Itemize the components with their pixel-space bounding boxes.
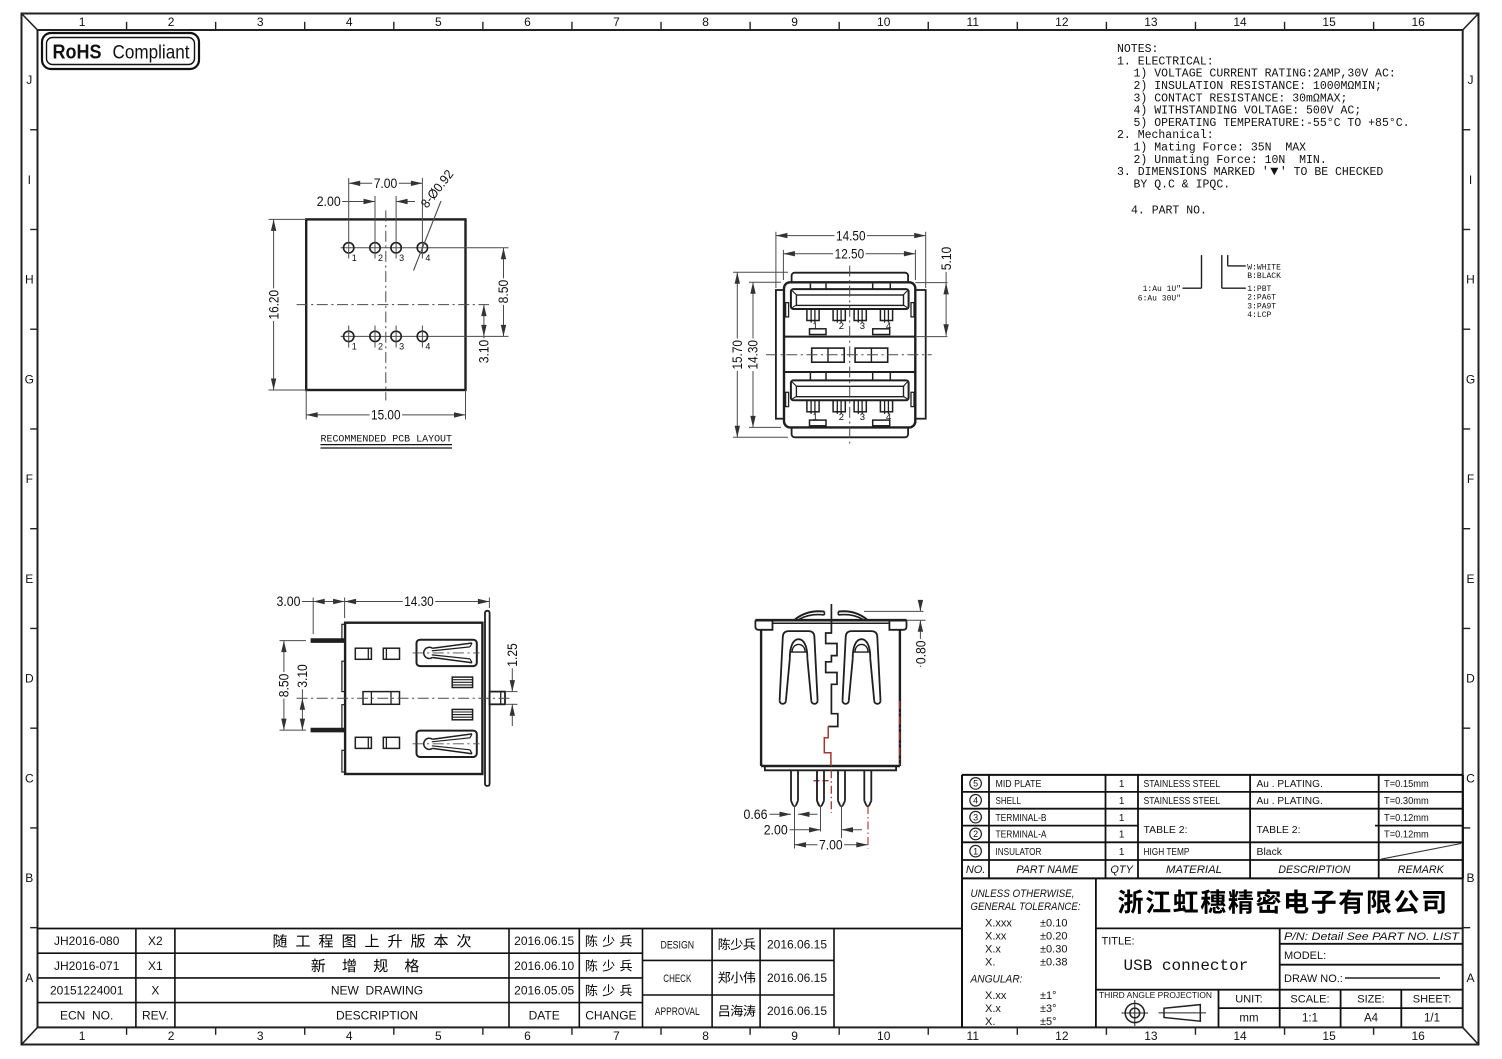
svg-text:1: 1 xyxy=(813,321,818,332)
svg-text:Au . PLATING.: Au . PLATING. xyxy=(1257,779,1323,790)
svg-text:C: C xyxy=(25,771,34,785)
svg-text:12.50: 12.50 xyxy=(835,246,865,261)
svg-text:X.x: X.x xyxy=(985,1003,1001,1015)
svg-text:20151224001: 20151224001 xyxy=(50,984,124,998)
svg-text:3: 3 xyxy=(399,341,404,351)
svg-text:15.00: 15.00 xyxy=(371,408,401,423)
svg-text:14.30: 14.30 xyxy=(746,340,761,370)
svg-text:12: 12 xyxy=(1055,1029,1069,1043)
svg-text:SHEET:: SHEET: xyxy=(1413,994,1452,1006)
svg-text:Black: Black xyxy=(1257,847,1284,858)
svg-text:3: 3 xyxy=(399,253,404,263)
svg-text:P/N: Detail See PART NO. LIST: P/N: Detail See PART NO. LIST xyxy=(1284,931,1460,943)
svg-text:14.50: 14.50 xyxy=(836,228,866,243)
svg-text:11: 11 xyxy=(967,15,980,29)
svg-text:11: 11 xyxy=(967,1029,980,1043)
svg-text:1:PBT: 1:PBT xyxy=(1247,285,1271,294)
svg-text:5: 5 xyxy=(973,779,978,789)
svg-text:APPROVAL: APPROVAL xyxy=(655,1006,700,1018)
svg-text:T=0.30mm: T=0.30mm xyxy=(1384,795,1429,807)
svg-text:4: 4 xyxy=(346,15,353,29)
svg-text:5.10: 5.10 xyxy=(939,247,954,271)
svg-text:2. Mechanical:: 2. Mechanical: xyxy=(1117,129,1214,142)
svg-text:THIRD ANGLE PROJECTION: THIRD ANGLE PROJECTION xyxy=(1099,990,1212,1000)
svg-text:C: C xyxy=(1466,771,1475,785)
svg-text:2016.06.15: 2016.06.15 xyxy=(514,934,574,948)
svg-text:3. DIMENSIONS MARKED ': 3. DIMENSIONS MARKED ' xyxy=(1117,166,1269,179)
svg-text:REMARK: REMARK xyxy=(1398,864,1445,876)
svg-text:G: G xyxy=(1466,372,1475,386)
svg-text:SCALE:: SCALE: xyxy=(1290,994,1329,1006)
svg-text:2016.06.15: 2016.06.15 xyxy=(767,971,827,985)
svg-text:16.20: 16.20 xyxy=(266,290,281,320)
svg-text:2.00: 2.00 xyxy=(317,194,341,209)
svg-text:7.00: 7.00 xyxy=(819,838,843,853)
svg-text:2: 2 xyxy=(168,1029,175,1043)
svg-text:X2: X2 xyxy=(148,934,163,948)
svg-text:PART NAME: PART NAME xyxy=(1016,864,1079,876)
svg-text:2: 2 xyxy=(839,321,844,332)
svg-text:6: 6 xyxy=(524,15,531,29)
svg-text:7.00: 7.00 xyxy=(374,176,398,191)
svg-text:10: 10 xyxy=(877,15,891,29)
svg-text:1: 1 xyxy=(973,846,978,856)
svg-text:3.00: 3.00 xyxy=(277,594,301,609)
svg-text:1: 1 xyxy=(352,341,357,351)
svg-text:X.xx: X.xx xyxy=(985,931,1007,943)
svg-text:MATERIAL: MATERIAL xyxy=(1166,864,1222,876)
svg-text:X.x: X.x xyxy=(985,944,1001,956)
svg-text:QTY: QTY xyxy=(1110,864,1133,876)
svg-text:INSULATOR: INSULATOR xyxy=(996,847,1042,858)
svg-text:±0.20: ±0.20 xyxy=(1040,931,1067,943)
svg-text:1: 1 xyxy=(813,412,818,423)
svg-text:E: E xyxy=(25,572,33,586)
svg-text:BY Q.C & IPQC.: BY Q.C & IPQC. xyxy=(1134,179,1231,192)
svg-text:RoHS: RoHS xyxy=(53,42,102,64)
svg-text:TABLE 2:: TABLE 2: xyxy=(1257,825,1301,836)
svg-text:8.50: 8.50 xyxy=(496,280,511,304)
svg-text:H: H xyxy=(1466,273,1475,287)
svg-text:4: 4 xyxy=(346,1029,353,1043)
svg-text:UNIT:: UNIT: xyxy=(1235,994,1263,1006)
svg-text:X.: X. xyxy=(985,957,995,969)
svg-text:DESIGN: DESIGN xyxy=(661,940,695,952)
svg-text:X: X xyxy=(151,984,159,998)
svg-text:3:PA9T: 3:PA9T xyxy=(1247,302,1276,311)
svg-text:15: 15 xyxy=(1322,15,1336,29)
svg-text:1: 1 xyxy=(1119,779,1125,790)
svg-text:NEW DRAWING: NEW DRAWING xyxy=(331,984,423,998)
svg-text:16: 16 xyxy=(1411,15,1425,29)
svg-text:13: 13 xyxy=(1144,15,1158,29)
svg-text:DATE: DATE xyxy=(529,1008,560,1022)
svg-text:8.50: 8.50 xyxy=(277,674,292,698)
svg-text:±0.10: ±0.10 xyxy=(1040,918,1067,930)
svg-text:2016.06.15: 2016.06.15 xyxy=(767,1004,827,1018)
svg-text:ANGULAR:: ANGULAR: xyxy=(970,974,1023,986)
svg-text:7: 7 xyxy=(613,15,620,29)
svg-text:14: 14 xyxy=(1233,1029,1247,1043)
svg-text:1: 1 xyxy=(79,1029,86,1043)
svg-text:2016.06.10: 2016.06.10 xyxy=(514,959,574,973)
svg-text:15: 15 xyxy=(1322,1029,1336,1043)
svg-text:B: B xyxy=(25,871,33,885)
svg-text:±5°: ±5° xyxy=(1040,1016,1057,1028)
svg-text:1. ELECTRICAL:: 1. ELECTRICAL: xyxy=(1117,55,1214,68)
svg-text:1:Au 1U": 1:Au 1U" xyxy=(1143,285,1181,294)
svg-text:±0.38: ±0.38 xyxy=(1040,957,1067,969)
svg-text:6: 6 xyxy=(524,1029,531,1043)
svg-text:3: 3 xyxy=(257,15,264,29)
svg-text:3: 3 xyxy=(973,812,978,822)
svg-text:1: 1 xyxy=(352,253,357,263)
svg-text:3.10: 3.10 xyxy=(295,664,310,688)
svg-text:2016.05.05: 2016.05.05 xyxy=(514,984,574,998)
svg-text:X1: X1 xyxy=(148,959,163,973)
svg-text:±0.30: ±0.30 xyxy=(1040,944,1067,956)
svg-text:9: 9 xyxy=(791,15,798,29)
svg-text:REV.: REV. xyxy=(142,1008,169,1022)
svg-text:TITLE:: TITLE: xyxy=(1102,936,1135,948)
svg-text:3: 3 xyxy=(860,321,865,332)
svg-text:3.10: 3.10 xyxy=(477,340,492,364)
svg-text:UNLESS OTHERWISE,: UNLESS OTHERWISE, xyxy=(971,888,1075,900)
svg-text:10: 10 xyxy=(877,1029,891,1043)
svg-text:8: 8 xyxy=(702,15,709,29)
svg-text:A: A xyxy=(1466,971,1474,985)
svg-text:8: 8 xyxy=(702,1029,709,1043)
svg-text:1: 1 xyxy=(1119,847,1125,858)
svg-text:1/1: 1/1 xyxy=(1424,1013,1440,1025)
svg-text:12: 12 xyxy=(1055,15,1069,29)
svg-text:2:PA6T: 2:PA6T xyxy=(1247,294,1276,303)
svg-text:X.: X. xyxy=(985,1016,995,1028)
svg-text:4: 4 xyxy=(973,796,978,806)
svg-text:3) CONTACT RESISTANCE: 30mΩMAX: 3) CONTACT RESISTANCE: 30mΩMAX; xyxy=(1134,92,1348,105)
svg-text:±3°: ±3° xyxy=(1040,1003,1057,1015)
svg-text:H: H xyxy=(25,273,34,287)
svg-text:5: 5 xyxy=(435,15,442,29)
svg-text:I: I xyxy=(28,173,31,187)
svg-text:2: 2 xyxy=(378,341,383,351)
svg-text:5) OPERATING TEMPERATURE:-55°C: 5) OPERATING TEMPERATURE:-55°C TO +85°C. xyxy=(1134,117,1410,130)
svg-text:I: I xyxy=(1469,173,1472,187)
svg-text:NO.: NO. xyxy=(966,864,986,876)
svg-text:SHELL: SHELL xyxy=(996,796,1022,807)
svg-text:MODEL:: MODEL: xyxy=(1284,950,1326,962)
svg-text:2: 2 xyxy=(168,15,175,29)
svg-text:±1°: ±1° xyxy=(1040,990,1057,1002)
svg-text:TERMINAL-A: TERMINAL-A xyxy=(996,830,1047,841)
svg-text:1: 1 xyxy=(1119,796,1125,807)
svg-text:4. PART NO.: 4. PART NO. xyxy=(1131,205,1207,218)
svg-text:3: 3 xyxy=(257,1029,264,1043)
svg-text:JH2016-071: JH2016-071 xyxy=(54,959,120,973)
svg-text:F: F xyxy=(1467,472,1474,486)
svg-text:DRAW NO.:: DRAW NO.: xyxy=(1284,973,1343,985)
svg-text:9: 9 xyxy=(791,1029,798,1043)
svg-text:D: D xyxy=(25,672,34,686)
svg-text:T=0.15mm: T=0.15mm xyxy=(1384,778,1429,790)
svg-text:A4: A4 xyxy=(1364,1013,1379,1025)
svg-text:mm: mm xyxy=(1239,1013,1258,1025)
svg-text:Au . PLATING.: Au . PLATING. xyxy=(1257,796,1323,807)
svg-text:G: G xyxy=(25,372,34,386)
svg-text:0.66: 0.66 xyxy=(744,807,768,822)
svg-text:JH2016-080: JH2016-080 xyxy=(54,934,120,948)
svg-text:2016.06.15: 2016.06.15 xyxy=(767,938,827,952)
svg-text:HIGH TEMP: HIGH TEMP xyxy=(1144,847,1190,858)
svg-text:1: 1 xyxy=(79,15,86,29)
svg-text:4: 4 xyxy=(886,412,891,423)
svg-text:' TO BE CHECKED: ' TO BE CHECKED xyxy=(1280,166,1384,179)
svg-text:3: 3 xyxy=(860,412,865,423)
svg-text:1.25: 1.25 xyxy=(505,643,520,667)
svg-text:14: 14 xyxy=(1233,15,1247,29)
svg-text:2: 2 xyxy=(378,253,383,263)
svg-text:RECOMMENDED PCB LAYOUT: RECOMMENDED PCB LAYOUT xyxy=(321,434,453,446)
svg-text:MID PLATE: MID PLATE xyxy=(996,779,1042,790)
svg-text:1: 1 xyxy=(1119,813,1125,824)
svg-text:1) VOLTAGE CURRENT RATING:2AMP: 1) VOLTAGE CURRENT RATING:2AMP,30V AC: xyxy=(1134,68,1396,81)
svg-text:2) INSULATION RESISTANCE: 1000: 2) INSULATION RESISTANCE: 1000MΩMIN; xyxy=(1134,80,1382,93)
svg-text:D: D xyxy=(1466,672,1475,686)
svg-text:J: J xyxy=(26,73,32,87)
svg-text:NOTES:: NOTES: xyxy=(1117,43,1158,56)
svg-text:16: 16 xyxy=(1411,1029,1425,1043)
svg-text:0.80: 0.80 xyxy=(914,641,929,665)
svg-text:2.00: 2.00 xyxy=(764,823,788,838)
svg-text:6:Au 30U": 6:Au 30U" xyxy=(1138,295,1181,304)
svg-text:TERMINAL-B: TERMINAL-B xyxy=(996,813,1047,824)
svg-text:4: 4 xyxy=(425,341,430,351)
svg-text:STAINLESS STEEL: STAINLESS STEEL xyxy=(1144,796,1221,807)
svg-text:13: 13 xyxy=(1144,1029,1158,1043)
svg-text:X.xx: X.xx xyxy=(985,990,1007,1002)
svg-text:1) Mating Force: 35N MAX: 1) Mating Force: 35N MAX xyxy=(1134,142,1307,155)
svg-text:GENERAL TOLERANCE:: GENERAL TOLERANCE: xyxy=(971,901,1081,913)
svg-text:USB connector: USB connector xyxy=(1124,957,1249,975)
svg-text:CHECK: CHECK xyxy=(663,973,691,985)
svg-text:4) WITHSTANDING VOLTAGE: 500V: 4) WITHSTANDING VOLTAGE: 500V AC; xyxy=(1134,105,1362,118)
svg-text:STAINLESS STEEL: STAINLESS STEEL xyxy=(1144,779,1221,790)
svg-text:5: 5 xyxy=(435,1029,442,1043)
svg-text:DESCRIPTION: DESCRIPTION xyxy=(336,1008,418,1022)
svg-text:DESCRIPTION: DESCRIPTION xyxy=(1278,864,1350,876)
svg-text:Compliant: Compliant xyxy=(113,43,191,64)
svg-text:4: 4 xyxy=(886,321,891,332)
svg-text:1:1: 1:1 xyxy=(1302,1013,1318,1025)
svg-text:J: J xyxy=(1468,73,1474,87)
svg-text:CHANGE: CHANGE xyxy=(585,1008,636,1022)
svg-text:T=0.12mm: T=0.12mm xyxy=(1384,829,1429,841)
svg-text:4: 4 xyxy=(425,253,430,263)
svg-text:F: F xyxy=(26,472,33,486)
svg-text:2: 2 xyxy=(973,829,978,839)
svg-text:B: B xyxy=(1466,871,1474,885)
svg-text:ECN NO.: ECN NO. xyxy=(60,1008,113,1022)
svg-text:1: 1 xyxy=(1119,830,1125,841)
svg-text:2: 2 xyxy=(839,412,844,423)
svg-text:TABLE 2:: TABLE 2: xyxy=(1144,825,1188,836)
svg-text:X.xxx: X.xxx xyxy=(985,918,1012,930)
svg-text:A: A xyxy=(25,971,33,985)
svg-text:4:LCP: 4:LCP xyxy=(1247,311,1271,320)
svg-text:SIZE:: SIZE: xyxy=(1357,994,1385,1006)
svg-text:E: E xyxy=(1466,572,1474,586)
svg-text:B:BLACK: B:BLACK xyxy=(1247,272,1281,281)
svg-text:2) Unmating Force: 10N MIN.: 2) Unmating Force: 10N MIN. xyxy=(1134,154,1327,167)
svg-text:T=0.12mm: T=0.12mm xyxy=(1384,812,1429,824)
svg-text:7: 7 xyxy=(613,1029,620,1043)
svg-text:15.70: 15.70 xyxy=(730,340,745,370)
svg-text:14.30: 14.30 xyxy=(404,594,434,609)
